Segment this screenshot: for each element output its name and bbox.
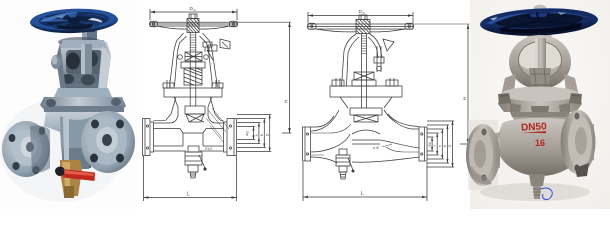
dim D nested 2 [427,121,454,167]
handwheel navy [479,6,598,38]
red lever [62,169,95,181]
dim L [144,156,237,201]
gland hub [187,19,199,33]
svg-text:H: H [462,97,467,100]
bonnet flange 2 [330,86,402,97]
section hatch [206,108,229,143]
handwheel 2 [308,24,413,29]
yoke block [56,42,111,92]
blue wire seal [541,188,552,199]
yoke ring [509,35,571,89]
hub column [526,30,553,52]
wheel nut 2 [359,15,367,20]
right flange [81,111,135,173]
wheel nut [189,14,197,19]
svg-text:16: 16 [535,138,545,148]
svg-text:n-Φ: n-Φ [373,146,379,150]
dim Do line 2 [308,12,413,23]
bonnet bolt left [167,80,170,88]
disc plug [185,106,205,114]
bonnet flange [164,88,222,97]
body left flange 2 [303,127,311,161]
gland hub 2 [356,20,370,34]
photo backdrop right [470,0,610,209]
left flange [466,124,500,186]
H dimension [282,22,292,133]
stem nut above wheel [534,7,546,16]
svg-text:Φd: Φd [246,131,250,136]
handwheel [30,7,119,34]
body bore lines [154,129,224,147]
drain valve brass [60,160,82,196]
yoke right arm 2 [368,34,382,58]
body right arm [576,124,594,166]
top flange plate [40,97,126,112]
seat arc 2 [352,130,380,134]
bonnet bolt right [216,80,219,88]
body center [44,112,118,168]
dim e nested 2 [427,129,444,159]
stem under wheel [82,28,97,44]
stem 2 [362,34,367,109]
dim K nested 2 [427,125,449,163]
body internal curves 2 [311,134,420,152]
drain valve 2 [339,149,347,155]
body left arm [468,132,500,170]
body bottom outline [154,150,224,152]
yoke right arm [200,33,218,87]
left flange [2,121,50,177]
body left flange [143,119,154,156]
right flange [561,110,596,174]
dim d nested 2 [427,137,434,151]
drain lever [199,155,205,168]
yoke left arm [170,33,187,87]
drain plug [529,174,545,186]
stem [190,33,196,107]
body center [496,118,584,176]
body neck [510,112,570,124]
bonnet bolt left 2 [336,78,340,86]
yoke bracket 2 [383,39,394,51]
dim L 2 [303,162,427,201]
svg-text:e: e [255,134,259,136]
bonnet trapezoid 2 [340,97,392,108]
dim D nested [237,115,271,152]
flange bolts [498,93,511,104]
bonnet flange [498,92,582,112]
top extension to H 2 [413,23,470,25]
bonnet neck [166,97,220,120]
gland flange [181,62,205,68]
body top outline [154,107,224,123]
bonnet bolt right 2 [390,78,394,86]
stem nut assembly [185,52,202,61]
stem in ring [535,38,546,70]
dim e nested [237,123,260,144]
packing gland 2 [354,72,374,80]
packing box [184,68,202,85]
svg-text:R1/2: R1/2 [205,147,212,151]
svg-text:o: o [363,11,365,15]
body right flange 2 [419,127,427,161]
H dimension 2 [460,24,470,144]
svg-text:Φd: Φd [428,142,432,147]
body right flange [224,119,237,156]
dim Y nested 2 [427,133,439,155]
dim K nested [237,119,266,148]
yoke shoulders [502,74,516,92]
yoke top bracket [220,39,230,49]
svg-text:e: e [438,145,442,147]
handwheel side view [150,22,237,26]
drain lever 2 [348,158,353,170]
seat bridge [180,129,206,147]
shadow [480,183,590,201]
drain valve [188,146,199,152]
svg-text:L: L [187,192,190,198]
packing stack 2 [350,108,382,115]
yoke left arm 2 [342,34,360,86]
gland bolt right [207,50,213,60]
body bottom curves 2 [311,157,420,163]
body top curves 2 [311,110,340,131]
top extension to H [237,21,291,23]
svg-text:L: L [361,191,364,197]
svg-text:o: o [194,8,196,12]
bonnet hex [54,88,112,97]
photo backdrop [0,0,137,209]
dim Do line [150,9,237,20]
svg-text:H: H [284,100,289,103]
packing nut [529,68,551,84]
gland pivot bolt 2 [377,46,381,72]
dim d nested [237,127,255,140]
